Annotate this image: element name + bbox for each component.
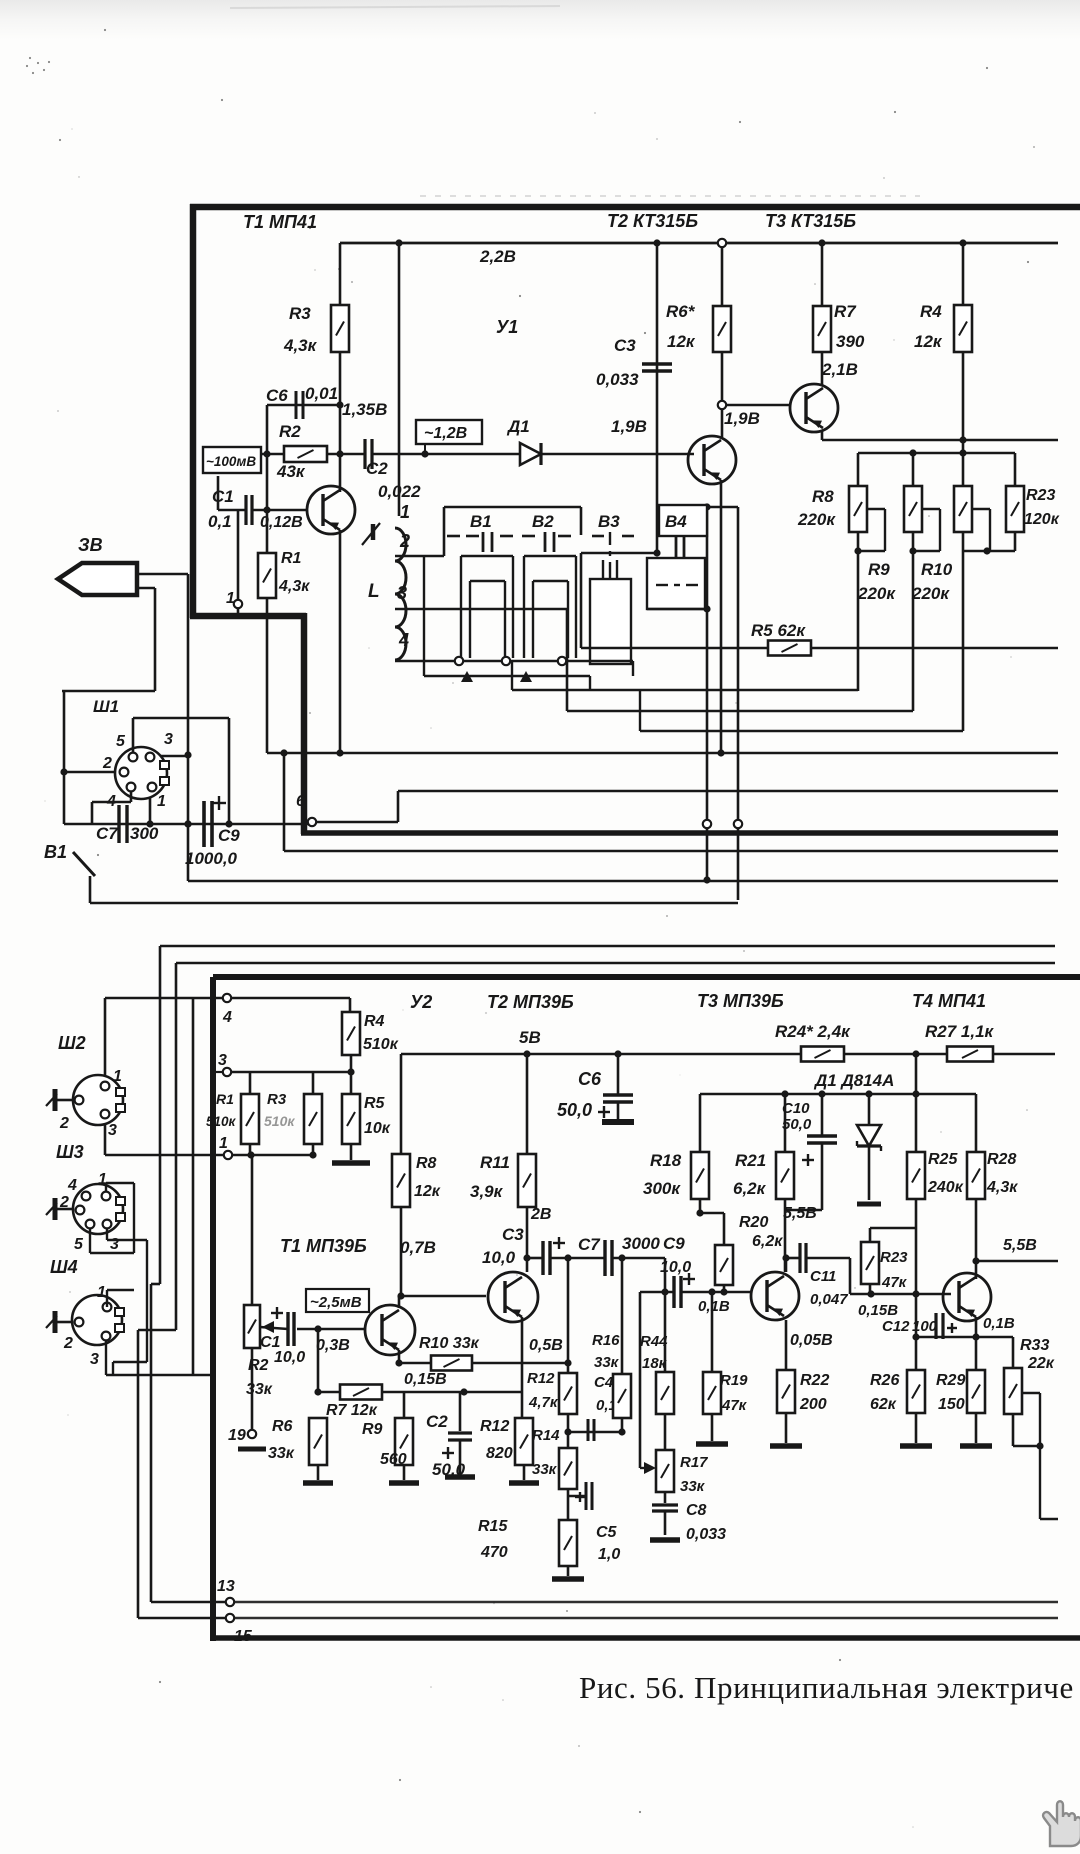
svg-text:33к: 33к <box>680 1478 706 1495</box>
svg-text:33к: 33к <box>268 1445 295 1462</box>
svg-text:4: 4 <box>398 630 409 650</box>
svg-text:820: 820 <box>486 1445 513 1462</box>
svg-text:Рис. 56. Принципиальная эле: Рис. 56. Принципиальная электриче <box>579 1670 1074 1705</box>
svg-text:R1: R1 <box>281 550 302 567</box>
svg-text:4: 4 <box>67 1177 77 1194</box>
svg-text:R5: R5 <box>364 1095 386 1112</box>
svg-text:R33: R33 <box>1020 1337 1049 1354</box>
svg-text:Д1: Д1 <box>506 417 530 436</box>
svg-text:1,9В: 1,9В <box>611 417 647 436</box>
svg-text:С9: С9 <box>663 1234 685 1253</box>
svg-text:390: 390 <box>836 332 865 351</box>
svg-text:12к: 12к <box>667 332 696 351</box>
svg-text:С3: С3 <box>614 336 636 355</box>
svg-text:19: 19 <box>228 1427 246 1444</box>
svg-text:ЗВ: ЗВ <box>78 535 103 555</box>
svg-text:Т1 МП39Б: Т1 МП39Б <box>280 1236 367 1256</box>
svg-text:47к: 47к <box>721 1397 748 1414</box>
svg-text:2,1В: 2,1В <box>821 360 858 379</box>
svg-text:5,5В: 5,5В <box>1003 1237 1037 1254</box>
svg-text:43к: 43к <box>276 462 306 481</box>
svg-text:1: 1 <box>113 1068 122 1085</box>
svg-text:~100мВ: ~100мВ <box>206 454 256 469</box>
svg-text:R21: R21 <box>735 1151 766 1170</box>
svg-text:Т2 МП39Б: Т2 МП39Б <box>487 992 574 1012</box>
svg-text:5,5В: 5,5В <box>783 1205 817 1222</box>
svg-text:С1: С1 <box>212 487 234 506</box>
svg-text:1: 1 <box>219 1135 228 1152</box>
svg-text:1: 1 <box>226 590 235 607</box>
svg-text:50,0: 50,0 <box>782 1116 812 1133</box>
svg-text:33к: 33к <box>246 1381 273 1398</box>
svg-text:0,15В: 0,15В <box>858 1302 898 1319</box>
svg-text:Ш4: Ш4 <box>50 1257 78 1277</box>
svg-text:3: 3 <box>397 583 407 603</box>
svg-text:R7 12к: R7 12к <box>326 1402 378 1419</box>
svg-text:2: 2 <box>59 1115 69 1132</box>
svg-text:R3: R3 <box>289 304 311 323</box>
svg-text:6,2к: 6,2к <box>733 1179 767 1198</box>
svg-text:Т2 КТ315Б: Т2 КТ315Б <box>607 211 698 231</box>
svg-text:R19: R19 <box>720 1372 748 1389</box>
svg-text:L: L <box>368 581 380 602</box>
svg-text:Ш1: Ш1 <box>93 697 119 716</box>
svg-text:R3: R3 <box>267 1091 287 1108</box>
svg-text:R4: R4 <box>364 1013 385 1030</box>
svg-text:4,7к: 4,7к <box>528 1394 559 1411</box>
svg-text:33к: 33к <box>532 1461 558 1478</box>
svg-text:С5: С5 <box>596 1524 618 1541</box>
svg-text:6,2к: 6,2к <box>752 1233 783 1250</box>
svg-text:R4: R4 <box>920 302 942 321</box>
svg-text:В2: В2 <box>532 512 554 531</box>
svg-text:R8: R8 <box>812 487 834 506</box>
svg-text:0,5В: 0,5В <box>529 1337 563 1354</box>
svg-text:4,3к: 4,3к <box>283 336 318 355</box>
svg-text:0,05В: 0,05В <box>790 1332 833 1349</box>
svg-text:0,3В: 0,3В <box>316 1337 350 1354</box>
svg-text:0,033: 0,033 <box>686 1526 726 1543</box>
svg-text:1,35В: 1,35В <box>342 400 387 419</box>
svg-text:2: 2 <box>102 755 112 772</box>
svg-text:R10 33к: R10 33к <box>419 1335 480 1352</box>
svg-text:4,3к: 4,3к <box>986 1179 1018 1196</box>
svg-text:R20: R20 <box>739 1214 768 1231</box>
svg-text:2В: 2В <box>530 1206 551 1223</box>
svg-text:3,9к: 3,9к <box>470 1182 504 1201</box>
svg-text:R12: R12 <box>527 1370 555 1387</box>
svg-text:С6: С6 <box>266 386 288 405</box>
svg-text:50,0: 50,0 <box>432 1460 466 1479</box>
svg-text:1: 1 <box>157 793 166 810</box>
svg-text:Т1 МП41: Т1 МП41 <box>243 212 317 232</box>
svg-text:R27 1,1к: R27 1,1к <box>925 1022 995 1041</box>
svg-text:0,1: 0,1 <box>208 512 232 531</box>
svg-text:47к: 47к <box>881 1274 908 1291</box>
svg-text:~2,5мВ: ~2,5мВ <box>310 1294 362 1311</box>
svg-text:50,0: 50,0 <box>557 1100 592 1120</box>
svg-text:4: 4 <box>222 1009 232 1026</box>
svg-text:R2: R2 <box>248 1357 269 1374</box>
svg-text:100: 100 <box>912 1318 938 1335</box>
svg-text:R6*: R6* <box>666 302 696 321</box>
svg-text:R29: R29 <box>936 1372 965 1389</box>
svg-text:200: 200 <box>799 1396 827 1413</box>
svg-text:R26: R26 <box>870 1372 899 1389</box>
svg-text:R18: R18 <box>650 1151 682 1170</box>
svg-text:3: 3 <box>164 731 173 748</box>
svg-text:6: 6 <box>296 793 305 810</box>
svg-text:У1: У1 <box>496 317 518 337</box>
svg-text:150: 150 <box>938 1396 965 1413</box>
svg-text:R15: R15 <box>478 1518 508 1535</box>
svg-text:5: 5 <box>74 1236 84 1253</box>
svg-text:0,022: 0,022 <box>378 482 421 501</box>
svg-text:R7: R7 <box>834 302 857 321</box>
svg-text:R9: R9 <box>362 1421 383 1438</box>
svg-text:120к: 120к <box>1024 511 1060 528</box>
svg-text:1,0: 1,0 <box>598 1546 620 1563</box>
svg-text:2: 2 <box>63 1335 73 1352</box>
svg-text:В3: В3 <box>598 512 620 531</box>
svg-text:15: 15 <box>234 1628 253 1645</box>
svg-text:С12: С12 <box>882 1318 910 1335</box>
svg-text:1: 1 <box>400 502 410 522</box>
svg-text:62к: 62к <box>870 1396 897 1413</box>
svg-text:R16: R16 <box>592 1332 620 1349</box>
svg-text:2,2В: 2,2В <box>479 247 516 266</box>
svg-text:С9: С9 <box>218 826 240 845</box>
svg-text:С3: С3 <box>502 1225 524 1244</box>
svg-text:3000: 3000 <box>622 1234 660 1253</box>
svg-text:С2: С2 <box>426 1412 448 1431</box>
svg-text:4,3к: 4,3к <box>278 578 310 595</box>
svg-text:R1: R1 <box>216 1091 234 1107</box>
svg-text:0,047: 0,047 <box>810 1291 848 1308</box>
svg-text:R22: R22 <box>800 1372 829 1389</box>
svg-text:R2: R2 <box>279 422 301 441</box>
svg-text:220к: 220к <box>797 510 836 529</box>
svg-text:510к: 510к <box>264 1113 295 1129</box>
svg-text:R5 62к: R5 62к <box>751 621 806 640</box>
svg-text:1000,0: 1000,0 <box>185 849 238 868</box>
svg-text:33к: 33к <box>594 1354 620 1371</box>
svg-text:В1: В1 <box>470 512 492 531</box>
svg-text:220к: 220к <box>857 584 896 603</box>
svg-text:12к: 12к <box>914 332 943 351</box>
svg-text:220к: 220к <box>911 584 950 603</box>
svg-text:3: 3 <box>108 1122 117 1139</box>
svg-text:510к: 510к <box>206 1114 237 1129</box>
svg-text:Т3 КТ315Б: Т3 КТ315Б <box>765 211 856 231</box>
svg-text:R10: R10 <box>921 560 953 579</box>
svg-text:С11: С11 <box>810 1268 836 1285</box>
svg-text:0,12В: 0,12В <box>260 514 303 531</box>
svg-text:В4: В4 <box>665 512 687 531</box>
svg-text:1,9В: 1,9В <box>724 409 760 428</box>
svg-text:R28: R28 <box>987 1151 1016 1168</box>
svg-text:240к: 240к <box>927 1179 964 1196</box>
svg-text:С10: С10 <box>782 1100 810 1117</box>
svg-text:R25: R25 <box>928 1151 958 1168</box>
svg-text:0,7В: 0,7В <box>400 1238 436 1257</box>
svg-text:10к: 10к <box>364 1120 391 1137</box>
svg-text:3: 3 <box>110 1236 119 1253</box>
svg-text:13: 13 <box>217 1578 235 1595</box>
svg-text:2: 2 <box>399 531 410 551</box>
svg-text:С6: С6 <box>578 1069 602 1089</box>
svg-text:С2: С2 <box>366 459 388 478</box>
svg-text:0,1В: 0,1В <box>983 1315 1015 1332</box>
svg-text:10,0: 10,0 <box>274 1349 305 1366</box>
svg-text:С4: С4 <box>594 1374 614 1391</box>
svg-text:Т3 МП39Б: Т3 МП39Б <box>697 991 784 1011</box>
svg-text:0,01: 0,01 <box>305 384 338 403</box>
svg-text:300: 300 <box>130 824 159 843</box>
svg-text:R8: R8 <box>416 1155 437 1172</box>
svg-text:С7: С7 <box>578 1235 601 1254</box>
svg-text:R14: R14 <box>532 1427 560 1444</box>
svg-text:Т4 МП41: Т4 МП41 <box>912 991 986 1011</box>
svg-text:5: 5 <box>116 733 126 750</box>
svg-text:5В: 5В <box>519 1028 541 1047</box>
svg-text:1: 1 <box>97 1284 106 1301</box>
svg-text:0,033: 0,033 <box>596 370 639 389</box>
svg-text:R11: R11 <box>480 1153 510 1172</box>
svg-text:R12: R12 <box>480 1418 509 1435</box>
svg-text:22к: 22к <box>1027 1355 1055 1372</box>
svg-text:10,0: 10,0 <box>482 1248 516 1267</box>
svg-text:R24* 2,4к: R24* 2,4к <box>775 1022 851 1041</box>
svg-text:470: 470 <box>480 1544 508 1561</box>
svg-text:3: 3 <box>218 1052 227 1069</box>
svg-text:С7: С7 <box>96 824 119 843</box>
svg-text:Ш3: Ш3 <box>56 1142 84 1162</box>
svg-text:R23: R23 <box>880 1249 908 1266</box>
svg-text:0,15В: 0,15В <box>404 1371 447 1388</box>
svg-text:В1: В1 <box>44 842 67 862</box>
svg-text:С8: С8 <box>686 1502 707 1519</box>
svg-text:R6: R6 <box>272 1418 293 1435</box>
svg-text:300к: 300к <box>643 1179 681 1198</box>
svg-text:~1,2В: ~1,2В <box>424 425 467 442</box>
svg-text:3: 3 <box>90 1351 99 1368</box>
svg-text:12к: 12к <box>414 1183 441 1200</box>
svg-text:R9: R9 <box>868 560 890 579</box>
svg-text:0,1В: 0,1В <box>698 1298 730 1315</box>
svg-text:R23: R23 <box>1026 487 1055 504</box>
svg-text:510к: 510к <box>363 1036 399 1053</box>
svg-text:R17: R17 <box>680 1454 708 1471</box>
svg-text:У2: У2 <box>410 992 432 1012</box>
svg-text:Д1 Д814А: Д1 Д814А <box>813 1071 894 1090</box>
svg-text:Ш2: Ш2 <box>58 1033 86 1053</box>
